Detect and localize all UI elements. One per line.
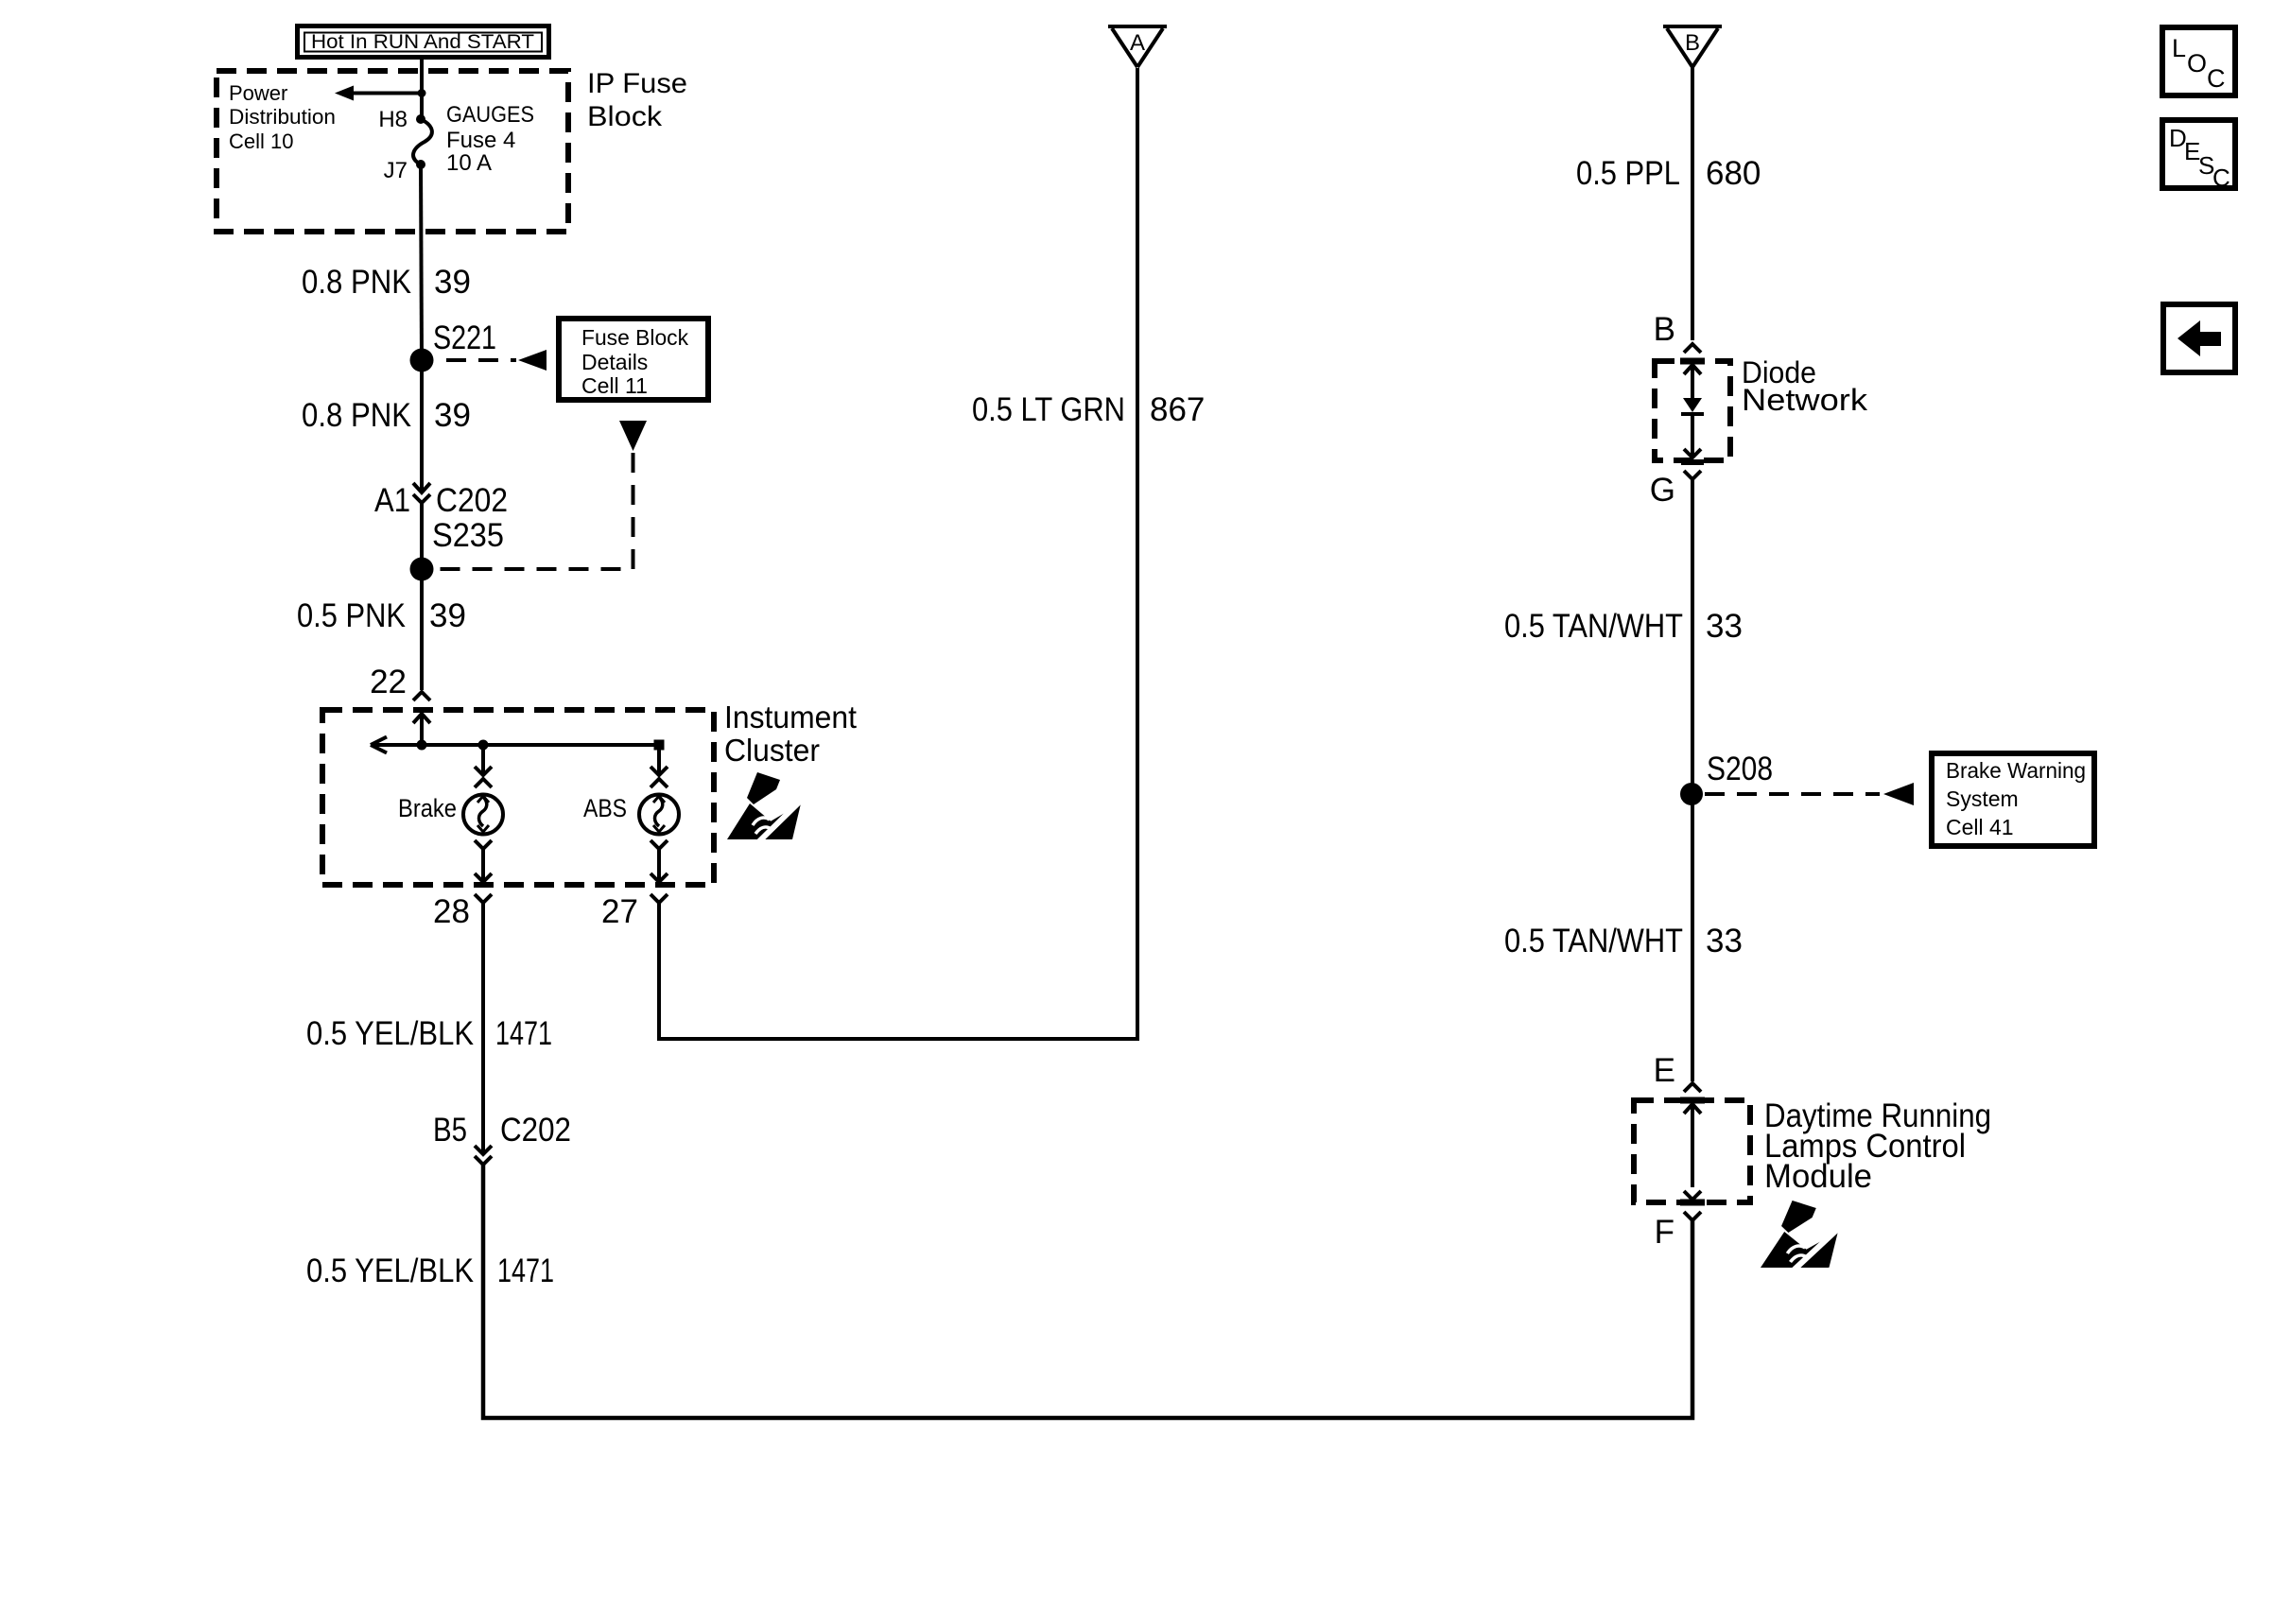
connector arrow into DRL module <box>1680 1100 1705 1187</box>
svg-text:J7: J7 <box>384 158 408 183</box>
svg-text:G: G <box>1650 472 1675 509</box>
svg-text:C: C <box>2207 64 2226 93</box>
wire 0.5 TAN/WHT 33 (G to S208) <box>1504 480 1743 794</box>
svg-text:28: 28 <box>433 893 470 930</box>
svg-text:0.8 PNK: 0.8 PNK <box>302 264 411 301</box>
splice S208 <box>1680 751 1773 805</box>
svg-text:39: 39 <box>429 597 466 634</box>
fuse F4 GAUGES 10A <box>413 102 534 176</box>
svg-text:Hot In RUN And START: Hot In RUN And START <box>311 31 534 53</box>
svg-text:0.5 PNK: 0.5 PNK <box>297 597 406 634</box>
wire 0.5 PPL 680 (B to diode network) <box>1576 67 1761 340</box>
Instrument Cluster dashed box <box>322 710 714 885</box>
svg-text:Distribution: Distribution <box>229 105 336 129</box>
splice S221 <box>410 320 497 372</box>
svg-text:867: 867 <box>1150 391 1205 428</box>
cluster internal bus wire <box>371 737 659 753</box>
svg-text:1471: 1471 <box>495 1015 552 1052</box>
svg-text:0.5 PPL: 0.5 PPL <box>1576 155 1680 192</box>
svg-text:0.5 YEL/BLK: 0.5 YEL/BLK <box>306 1253 474 1289</box>
node at bus x=446 <box>417 740 427 751</box>
ESD symbol DRL module <box>1761 1201 1840 1270</box>
header box Hot In RUN And START <box>298 26 549 58</box>
label Power Distribution Cell 10 <box>229 81 336 153</box>
svg-text:Power: Power <box>229 81 287 105</box>
svg-text:B: B <box>1685 30 1700 56</box>
wire arrow to Power Distribution <box>335 86 422 101</box>
svg-text:IP Fuse: IP Fuse <box>587 68 687 99</box>
connector arrow into cluster <box>413 714 430 745</box>
terminal J7 <box>384 158 425 183</box>
wire 0.8 PNK 39 (fuse to S221) <box>302 164 471 360</box>
dashed reference line S208 to Brake Warning System <box>1705 783 1914 805</box>
svg-text:B: B <box>1654 311 1675 348</box>
connector arrow out of DRL module <box>1680 1191 1705 1220</box>
connector chevron below cluster (pin 27) <box>601 893 668 930</box>
svg-text:0.5 LT GRN: 0.5 LT GRN <box>972 391 1125 428</box>
svg-text:Fuse Block: Fuse Block <box>581 325 688 350</box>
svg-text:Fuse 4: Fuse 4 <box>446 128 515 153</box>
svg-text:27: 27 <box>601 893 638 930</box>
svg-text:H8: H8 <box>378 107 408 132</box>
off-page connector A <box>1108 26 1167 67</box>
svg-text:C202: C202 <box>436 482 508 519</box>
svg-text:Details: Details <box>581 350 648 374</box>
ABS lamp branch terminal <box>651 745 668 787</box>
svg-text:Module: Module <box>1764 1158 1872 1195</box>
reference box Brake Warning System Cell 41 <box>1932 753 2094 846</box>
diode D2 <box>1681 449 1704 462</box>
label wire 0.5 LT GRN 867 <box>972 391 1205 428</box>
wire 0.5 YEL/BLK 1471 (28 to C202) <box>306 903 552 1153</box>
svg-text:39: 39 <box>434 397 471 434</box>
wire 0.5 TAN/WHT 33 (S208 to E) <box>1504 794 1743 1081</box>
LOC box <box>2162 27 2235 95</box>
wire between diodes <box>1691 414 1694 458</box>
svg-text:680: 680 <box>1706 155 1761 192</box>
Brake lamp branch terminal <box>475 745 492 787</box>
svg-text:33: 33 <box>1706 608 1743 645</box>
svg-text:0.5 YEL/BLK: 0.5 YEL/BLK <box>306 1015 474 1052</box>
svg-text:Cell 10: Cell 10 <box>229 130 293 153</box>
svg-text:System: System <box>1946 786 2019 811</box>
dashed reference line Fuse Block Details to S235 <box>435 421 647 569</box>
svg-text:22: 22 <box>370 664 407 700</box>
terminal B of diode network <box>1654 311 1701 353</box>
svg-text:C202: C202 <box>500 1112 571 1149</box>
svg-text:Instument: Instument <box>724 700 857 734</box>
svg-text:Brake Warning: Brake Warning <box>1946 758 2086 783</box>
svg-text:Network: Network <box>1742 383 1868 417</box>
splice S235 <box>410 517 505 581</box>
svg-text:33: 33 <box>1706 923 1743 959</box>
svg-text:39: 39 <box>434 264 471 301</box>
back arrow box <box>2163 304 2235 372</box>
svg-text:L: L <box>2172 34 2186 62</box>
svg-text:B5: B5 <box>433 1112 467 1149</box>
label Daytime Running Lamps Control Module <box>1764 1097 1991 1195</box>
junction node <box>418 89 426 97</box>
Brake lamp lower terminal <box>475 840 492 882</box>
svg-text:Block: Block <box>587 101 663 132</box>
svg-text:Cell 11: Cell 11 <box>581 373 648 398</box>
connector C202 pin A1 <box>374 482 508 519</box>
node at bus x=697 <box>654 740 665 751</box>
label Diode Network <box>1742 355 1868 417</box>
connector arrow into diode network <box>1680 361 1705 398</box>
dashed reference line S221 to Fuse Block Details <box>446 350 547 371</box>
ESD symbol instrument cluster <box>727 772 803 841</box>
svg-text:S208: S208 <box>1707 751 1773 787</box>
connector C202 pin B5 <box>433 1112 571 1165</box>
reference box Fuse Block Details Cell 11 <box>559 319 708 400</box>
IP Fuse Block dashed box <box>217 71 568 232</box>
svg-text:F: F <box>1655 1214 1674 1251</box>
svg-text:0.5 TAN/WHT: 0.5 TAN/WHT <box>1504 608 1683 645</box>
wire ABS 27 to connector A riser <box>659 68 1137 1039</box>
svg-text:O: O <box>2187 49 2207 78</box>
svg-text:0.8 PNK: 0.8 PNK <box>302 397 411 434</box>
svg-text:1471: 1471 <box>497 1253 554 1289</box>
svg-text:10 A: 10 A <box>446 150 492 176</box>
svg-text:S221: S221 <box>433 320 496 356</box>
diode D1 <box>1681 398 1704 414</box>
ABS lamp lower terminal <box>651 840 668 882</box>
svg-text:GAUGES: GAUGES <box>446 102 534 128</box>
svg-text:C: C <box>2212 164 2230 192</box>
off-page connector B <box>1663 26 1722 67</box>
lamp Brake <box>398 794 503 835</box>
terminal F <box>1655 1214 1674 1251</box>
terminal 22 chevron <box>370 664 430 700</box>
wire 0.5 PNK 39 (S235 to cluster) <box>297 503 466 690</box>
wire from header box into fuse block <box>420 60 424 119</box>
lamp ABS <box>583 794 679 835</box>
svg-text:S235: S235 <box>432 517 504 554</box>
Daytime Running Lamps Control Module dashed box <box>1634 1100 1750 1202</box>
svg-text:Brake: Brake <box>398 794 457 822</box>
node at bus x=511 <box>478 740 489 751</box>
svg-text:A1: A1 <box>374 482 410 519</box>
terminal H8 <box>378 107 425 132</box>
wire 0.5 YEL/BLK 1471 (C202 to DRL module F) <box>306 1165 1692 1418</box>
svg-text:Cluster: Cluster <box>724 733 820 768</box>
label IP Fuse Block <box>587 68 687 132</box>
svg-text:Cell 41: Cell 41 <box>1946 815 2014 839</box>
label Instument Cluster <box>724 700 857 768</box>
svg-text:0.5 TAN/WHT: 0.5 TAN/WHT <box>1504 923 1683 959</box>
svg-text:A: A <box>1130 30 1145 56</box>
svg-text:ABS: ABS <box>583 794 627 822</box>
connector chevron below cluster (pin 28) <box>433 893 492 930</box>
svg-text:E: E <box>1654 1052 1675 1089</box>
wire 0.8 PNK 39 (S221 to C202) <box>302 360 471 492</box>
DESC box <box>2162 120 2235 192</box>
Diode Network dashed box <box>1655 361 1730 460</box>
terminal G chevron <box>1650 471 1701 509</box>
terminal E chevron <box>1654 1052 1701 1092</box>
